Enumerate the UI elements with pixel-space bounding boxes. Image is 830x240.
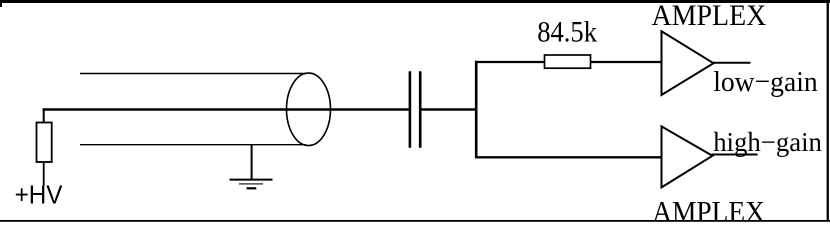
wire: ground stem <box>251 145 253 179</box>
frame top border <box>0 0 830 3</box>
coax tube top line <box>80 73 306 75</box>
ground <box>230 180 273 189</box>
op-amp U1 (low-gain AMPLEX) <box>662 31 714 95</box>
svg-text:low−gain: low−gain <box>713 66 818 98</box>
resistor R2 84.5k <box>545 55 591 68</box>
svg-text:AMPLEX: AMPLEX <box>652 195 765 223</box>
wire: center conductor (corner to capacitor left plate) <box>43 108 409 110</box>
wire: high-gain amp output stub <box>712 154 758 156</box>
svg-text:+HV: +HV <box>15 180 64 210</box>
wire: 84.5k resistor to low-gain amp <box>591 61 663 63</box>
frame left border stub <box>0 0 2 7</box>
svg-text:84.5k: 84.5k <box>537 15 597 48</box>
wire: bottom branch to high-gain amp <box>475 156 663 158</box>
svg-text:high−gain: high−gain <box>713 127 822 157</box>
wire: low-gain amp output stub <box>713 62 751 64</box>
resistor R1 (HV bias) <box>37 123 52 163</box>
wire: top branch to 84.5k resistor <box>475 61 545 63</box>
frame bottom border <box>0 220 830 222</box>
op-amp U2 (high-gain AMPLEX) <box>662 126 713 187</box>
coax tube end ellipse <box>287 73 331 145</box>
wire: junction vertical (split node) <box>475 61 478 159</box>
coax tube bottom line <box>80 144 306 146</box>
capacitor C1 right plate <box>419 71 422 148</box>
svg-text:AMPLEX: AMPLEX <box>652 0 767 32</box>
frame right border <box>827 0 829 221</box>
wire: bias resistor to +HV label <box>43 162 45 186</box>
wire: capacitor right plate to junction <box>421 108 477 110</box>
wire: corner down to bias resistor <box>43 108 45 123</box>
capacitor C1 left plate <box>409 71 412 148</box>
